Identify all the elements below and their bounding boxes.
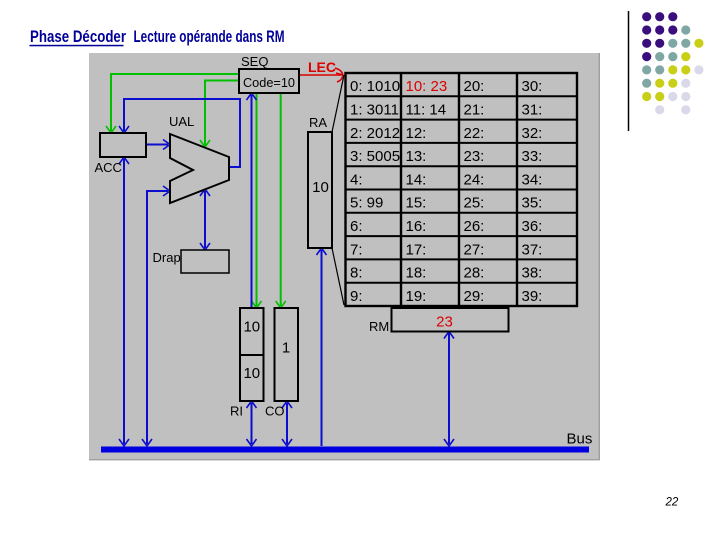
svg-text:29:: 29: [464,288,485,305]
svg-text:Drap: Drap [153,250,181,265]
svg-text:10: 10 [243,365,260,382]
svg-text:Code=10: Code=10 [243,75,295,90]
diagram background panel [89,53,599,459]
wire green SEQ to UAL [200,81,239,148]
wire blue RI to SEQ [247,93,257,308]
wire blue RI to bus [247,401,257,446]
svg-text:RI: RI [230,404,243,419]
svg-text:24:: 24: [464,171,485,188]
svg-text:31:: 31: [522,102,543,119]
svg-text:CO: CO [265,404,285,419]
register CO [275,308,299,401]
svg-text:34:: 34: [522,171,543,188]
svg-text:25:: 25: [464,195,485,212]
register RM [392,308,509,332]
register RA [308,132,332,248]
svg-text:1: 3011: 1: 3011 [350,102,399,119]
svg-text:5: 99: 5: 99 [350,195,383,212]
svg-text:15:: 15: [406,195,427,212]
line table corner to RA top [332,75,344,132]
svg-text:9:: 9: [350,288,363,305]
svg-text:22: 22 [665,497,679,509]
svg-text:16:: 16: [406,218,427,235]
wire green SEQ to CO [276,93,286,308]
svg-text:37:: 37: [522,241,543,258]
svg-text:10: 10 [243,319,260,336]
svg-text:3: 5005: 3: 5005 [350,148,400,165]
svg-text:12:: 12: [406,125,427,142]
bus bar [101,447,589,453]
register Drap [181,250,229,273]
svg-text:33:: 33: [522,148,543,165]
svg-text:2: 2012: 2: 2012 [350,125,400,142]
svg-text:RM: RM [369,319,389,334]
svg-text:38:: 38: [522,265,543,282]
wire blue UAL output to ACC [119,99,240,167]
svg-text:14:: 14: [406,171,427,188]
svg-text:20:: 20: [464,78,485,95]
svg-text:11: 14: 11: 14 [406,102,447,119]
ALU UAL polygon [170,134,229,203]
wire green SEQ to RI [252,93,262,308]
svg-text:21:: 21: [464,102,485,119]
memory table [346,73,578,306]
svg-text:4:: 4: [350,171,363,188]
svg-text:35:: 35: [522,195,543,212]
svg-text:18:: 18: [406,265,427,282]
line RA bottom to table corner [332,248,344,305]
svg-text:17:: 17: [406,241,427,258]
wire blue CO to bus [282,401,292,446]
svg-text:36:: 36: [522,218,543,235]
svg-text:27:: 27: [464,241,485,258]
svg-text:30:: 30: [522,78,543,95]
svg-text:19:: 19: [406,288,427,305]
signal LEC red arrow [299,68,343,82]
wire blue ACC to UAL input [146,140,170,150]
svg-text:Bus: Bus [567,431,593,448]
svg-text:1: 1 [282,340,290,357]
svg-text:13:: 13: [406,148,427,165]
svg-text:8:: 8: [350,265,363,282]
svg-text:23:: 23: [464,148,485,165]
box Code=10 (SEQ register) [239,69,299,93]
svg-text:23: 23 [436,314,453,331]
svg-text:0: 1010: 0: 1010 [350,78,400,95]
svg-text:Phase Décoder: Phase Décoder [30,27,126,46]
svg-text:22:: 22: [464,125,485,142]
svg-text:6:: 6: [350,218,363,235]
svg-text:RA: RA [309,115,327,130]
svg-text:10: 10 [312,179,329,196]
svg-text:39:: 39: [522,288,543,305]
svg-text:SEQ: SEQ [241,54,268,69]
wire blue ACC to bus [119,157,129,446]
register ACC [100,133,146,157]
wire blue bus to RA [317,248,327,446]
svg-text:10: 23: 10: 23 [406,78,448,95]
svg-text:ACC: ACC [95,160,122,175]
wire blue UAL to Drap [200,189,210,250]
wire blue bus to UAL input [142,186,170,446]
wire blue bus to RM [444,332,454,447]
svg-text:UAL: UAL [169,114,194,129]
svg-text:7:: 7: [350,241,363,258]
svg-text:26:: 26: [464,218,485,235]
svg-text:28:: 28: [464,265,485,282]
wire green SEQ to ACC [106,74,239,133]
svg-text:LEC: LEC [308,59,336,75]
svg-text:32:: 32: [522,125,543,142]
title underline [30,45,124,47]
register RI [240,308,264,401]
svg-text:Lecture opérande dans RM: Lecture opérande dans RM [134,27,285,46]
